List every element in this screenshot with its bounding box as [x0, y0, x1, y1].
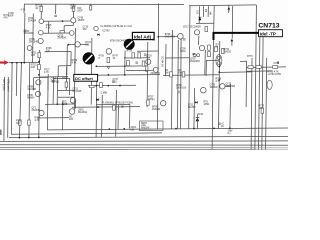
transistor Q701	[39, 19, 44, 24]
resistor R771	[222, 49, 225, 54]
wire vertical x208	[207, 6, 209, 17]
capacitor C771	[218, 122, 221, 124]
junction y85 a	[95, 85, 97, 87]
resistor R762	[182, 72, 185, 77]
wire vertical x91	[90, 38, 93, 105]
bus bottom line 3	[9, 136, 288, 137]
resistor R756	[127, 61, 130, 66]
uparrow node 2	[231, 39, 234, 42]
svg-text:Q719: Q719	[146, 56, 152, 58]
resistor R7z	[113, 105, 116, 110]
junction input 1	[11, 62, 13, 64]
transistor Q704	[36, 80, 41, 85]
wire corner into block	[240, 60, 247, 62]
junction bus1 e	[213, 127, 215, 129]
junction y66 a	[96, 65, 98, 67]
transistor Q708	[39, 110, 44, 115]
junction x219 b	[218, 71, 220, 73]
diode D707	[107, 67, 109, 69]
wire vertical x75	[74, 28, 75, 110]
capacitor C751	[135, 61, 138, 63]
svg-text:FL-DM(WL) SP BLUE FY-4.19: FL-DM(WL) SP BLUE FY-4.19	[101, 26, 133, 28]
wire y76 link	[40, 76, 68, 78]
resistor R785	[19, 120, 22, 125]
wire diode drop	[196, 115, 198, 129]
svg-text:2SC1PH: 2SC1PH	[151, 73, 160, 75]
page edge mark	[0, 130, 2, 136]
transistor Q719	[146, 59, 151, 64]
transistor Q717	[194, 30, 199, 35]
diode D709 black	[198, 17, 201, 20]
bus bottom line 4	[0, 140, 288, 143]
resistor R757	[147, 100, 150, 105]
bus bottom line 5	[0, 144, 288, 147]
wire vertical x158	[158, 3, 159, 129]
wire vertical x213 lower	[212, 43, 213, 151]
wire q727 link	[225, 85, 231, 87]
wire left vertical x33	[32, 14, 35, 63]
boxed part label MZ07	[140, 121, 164, 131]
wire x62 drop	[61, 101, 63, 130]
junction bus1 a	[108, 128, 110, 130]
transistor Q720	[69, 109, 75, 115]
wire y63 extension	[37, 61, 40, 63]
wire left net vertical B	[7, 77, 10, 138]
wire right mid y58	[165, 57, 189, 59]
capacitor C753	[177, 91, 179, 94]
junction y75 b	[124, 74, 126, 76]
label box DC offset	[74, 74, 98, 81]
transistor Q706	[35, 91, 40, 96]
wire R711 feed	[40, 4, 42, 18]
wire vertical x39	[38, 50, 41, 138]
junction bus1 f	[229, 127, 231, 129]
svg-text:BGT(L)/(R): BGT(L)/(R)	[2, 79, 4, 91]
junction x219 a	[219, 66, 221, 68]
label box Idel Adj	[132, 32, 154, 39]
wire center y75	[90, 74, 160, 77]
thick trace to Idel-TP	[214, 33, 259, 40]
junction q712	[67, 44, 69, 46]
capacitor C719	[56, 80, 59, 82]
transistor Q707	[70, 31, 75, 36]
wire x58 drop	[57, 66, 59, 77]
capacitor C703	[24, 29, 27, 31]
wire vertical x116	[115, 90, 118, 137]
wire trimmer drop	[124, 51, 126, 75]
wire q712 left	[68, 44, 75, 46]
wire loop top	[34, 76, 48, 78]
wire vertical x181	[180, 39, 183, 129]
schematic background	[0, 0, 288, 150]
wire link x48	[48, 22, 50, 33]
resistor R765h	[273, 66, 278, 69]
junction bus3 a	[18, 137, 20, 139]
wire y51 link	[45, 50, 71, 52]
wire x90 feed	[90, 4, 92, 10]
wire loop right	[47, 77, 49, 90]
resistor R753	[132, 53, 135, 58]
capacitor C747	[112, 80, 115, 82]
wire vertical x213 upper	[213, 6, 216, 32]
resistor R787	[28, 120, 31, 125]
trimmer VR701 black knob	[83, 52, 95, 64]
wire top right rail	[189, 4, 256, 7]
svg-text:R753: R753	[127, 51, 133, 53]
wire x71 corner	[70, 51, 72, 65]
page divider band	[0, 147, 288, 149]
wire left net vertical A	[3, 77, 6, 141]
svg-text:R737: R737	[62, 78, 68, 80]
wire vertical x130	[129, 105, 131, 129]
wire x206 link	[205, 60, 207, 76]
uparrow to idle tp	[212, 35, 215, 38]
transistor Q721	[199, 45, 204, 50]
wire vertical x57	[56, 77, 58, 104]
svg-text:R779: R779	[247, 56, 253, 58]
svg-text:C709100U: C709100U	[180, 49, 186, 53]
svg-text:D190: D190	[198, 114, 204, 116]
transistor Q711	[27, 46, 32, 51]
transistor Q723	[161, 101, 166, 106]
wire vertical x147	[146, 42, 149, 107]
svg-text:CN(L) panel: CN(L) panel	[6, 79, 8, 92]
wire vertical x96	[95, 80, 98, 137]
transistor Q725	[201, 87, 207, 93]
wire vertical x230	[229, 84, 232, 129]
wire right mid y75	[163, 74, 219, 77]
wire vertical x53	[52, 77, 55, 104]
wire vertical x203	[202, 6, 204, 17]
wire vertical x47	[46, 74, 49, 130]
wire vertical x246 block edge	[245, 61, 248, 107]
wire vertical x118	[117, 105, 120, 129]
wire mid y58	[126, 57, 150, 59]
wire right cluster y67	[246, 66, 286, 69]
resistor R761	[248, 66, 253, 69]
wire q710 q720 link	[74, 100, 76, 108]
wire right cluster y71	[246, 70, 272, 72]
wire vertical x194	[193, 88, 196, 129]
resistor R773	[261, 108, 264, 113]
svg-text:4.7K: 4.7K	[21, 10, 26, 12]
trimmer VR703 black knob	[124, 39, 135, 50]
transistor Q705	[39, 30, 44, 35]
wire vertical x165	[165, 44, 168, 76]
small circle pair a	[193, 54, 196, 57]
wire y117	[37, 117, 69, 119]
svg-text:U2790: U2790	[103, 31, 111, 33]
bus bottom line 1	[47, 128, 288, 130]
wire interstage y20	[44, 20, 71, 22]
resistor R714	[90, 6, 92, 10]
capacitor C749	[144, 53, 147, 55]
resistor R721	[38, 53, 41, 58]
resistor R711	[40, 6, 43, 11]
junction x158 q718	[157, 36, 159, 38]
wire center y85	[88, 84, 136, 87]
wire vertical x102	[101, 95, 104, 137]
uparrow top	[228, 7, 231, 10]
wire top rail corner	[23, 4, 25, 13]
resistor R723	[38, 65, 41, 70]
junction y21	[62, 20, 64, 22]
wire loop left	[32, 78, 34, 91]
diode D705	[97, 34, 99, 36]
resistor R749	[107, 58, 110, 63]
junction input 2	[16, 62, 18, 64]
resistor R763	[256, 66, 261, 69]
wire vertical x176	[177, 40, 180, 129]
transistor Q703	[71, 18, 76, 23]
transistor Q710	[70, 98, 76, 104]
small circle pair b	[197, 54, 200, 57]
resistor R716	[60, 31, 64, 33]
junction x219 c	[218, 79, 220, 81]
svg-text:4M: 4M	[204, 9, 206, 12]
svg-text:C717100U: C717100U	[51, 79, 57, 83]
resistor R7x	[90, 85, 95, 87]
junction bus1 d	[193, 128, 195, 130]
electrolytic C757	[216, 55, 222, 67]
box frame top	[53, 77, 69, 79]
wire q712 right	[80, 43, 88, 45]
bus vertical right 2	[259, 37, 260, 150]
wire right bus link y72	[219, 71, 252, 74]
capacitor C7n	[121, 105, 124, 107]
wire center y107	[72, 106, 140, 109]
transistor Q712	[75, 42, 80, 47]
junction x62	[62, 103, 64, 105]
junction R721	[38, 61, 40, 63]
wire vertical x66	[65, 67, 67, 90]
wire left mid y104	[45, 103, 75, 105]
transistor Q718	[178, 34, 184, 40]
wire vertical x29	[28, 63, 31, 138]
transistor Q709	[38, 38, 43, 43]
resistor R752	[208, 45, 211, 50]
diode D711	[195, 101, 197, 103]
junction bus1 b	[123, 128, 125, 130]
svg-text:Idel -TP: Idel -TP	[260, 31, 276, 36]
wire diode row y23	[196, 22, 214, 24]
transistor Q713	[94, 26, 98, 30]
capacitor C705	[54, 14, 57, 16]
bus vertical right 4	[266, 58, 267, 150]
red input arrow	[0, 62, 4, 64]
junction bus3 c	[38, 137, 40, 139]
wire y25 jog	[64, 25, 73, 27]
svg-text:B754 DXC440P: B754 DXC440P	[110, 40, 127, 42]
capacitor C755	[183, 38, 186, 40]
wire y70 mid	[126, 69, 153, 71]
wire left mid y90	[58, 89, 75, 91]
resistor R769	[215, 47, 218, 52]
wire mid y51	[137, 50, 158, 52]
transistor Q722	[153, 67, 158, 72]
junction R723	[38, 74, 40, 76]
resistor R758	[142, 61, 145, 66]
wire q717 link	[198, 36, 200, 46]
transistor Q727	[220, 84, 225, 89]
wire vertical x205	[204, 50, 207, 75]
wire vertical x199 to diode	[198, 6, 200, 23]
connector box Idel -TP	[259, 30, 283, 37]
svg-text:Q717 2SC2060R: Q717 2SC2060R	[183, 27, 201, 29]
wire q703 down	[72, 23, 74, 26]
diode D190 black	[196, 118, 200, 122]
svg-text:Idel Adj: Idel Adj	[134, 34, 151, 40]
svg-text:C1.: C1.	[152, 40, 156, 42]
resistor R7y	[100, 83, 103, 88]
resistor R760	[170, 72, 173, 77]
electrolytic C763	[267, 80, 272, 89]
junction mid x125	[124, 57, 126, 59]
bus vertical right 1	[255, 5, 257, 150]
capacitor C761	[277, 61, 279, 64]
resistor R755	[138, 53, 141, 58]
junction y85 c	[119, 85, 121, 87]
svg-text:DC offset: DC offset	[75, 76, 93, 81]
wire input node drop 2	[15, 63, 18, 96]
junction y104 x57	[56, 103, 58, 105]
wire interstage y33	[43, 32, 69, 34]
resistor R754	[208, 52, 211, 57]
resistor R737	[65, 82, 68, 87]
junction bus1 c	[175, 128, 177, 130]
wire top rail V+	[24, 3, 184, 6]
wire vertical x232	[231, 6, 234, 39]
box frame right	[69, 78, 71, 95]
bus vertical right 5	[250, 58, 253, 150]
wire input horizontal	[9, 61, 37, 63]
svg-text:DC/MA 04: DC/MA 04	[161, 56, 164, 67]
wire vertical x219	[219, 41, 220, 129]
svg-text:CN713: CN713	[258, 23, 279, 30]
wire vertical x228 stub	[228, 5, 230, 13]
transistor Q715 driver	[106, 49, 112, 55]
wire q718 left	[158, 36, 177, 38]
capacitor C7m	[97, 106, 100, 108]
wire vertical x189	[189, 5, 190, 129]
junction mid x125 b	[124, 65, 126, 67]
junction bus3 b	[28, 137, 30, 139]
diode D703 black	[96, 98, 99, 101]
junction input 3	[21, 62, 23, 64]
junction y75 a	[108, 74, 110, 76]
wire y60 right	[206, 59, 219, 61]
wire vertical x172	[172, 30, 173, 129]
wire x64 drop	[63, 26, 65, 33]
resistor R713	[72, 6, 75, 11]
wire R713 feed	[72, 4, 74, 17]
capacitor C717	[52, 80, 55, 82]
svg-text:C MIN: C MIN	[101, 93, 108, 95]
bus vertical right 3	[262, 37, 263, 150]
junction y85 b	[107, 85, 109, 87]
wire left mid y97	[58, 96, 75, 98]
svg-text:C761: C761	[274, 63, 280, 65]
wire center y66	[96, 65, 147, 68]
wire vertical x55 top	[55, 4, 57, 14]
capacitor C753u	[192, 53, 195, 55]
resistor R748	[145, 66, 148, 71]
wire y65 link	[58, 65, 71, 67]
junction input 4	[23, 62, 25, 64]
svg-text:FL-DM(WL) SP BLUE FY2(H): FL-DM(WL) SP BLUE FY2(H)	[102, 102, 133, 104]
wire left vertical x25	[23, 13, 26, 63]
wire vertical x67 mid	[66, 45, 69, 75]
wire input node drop 3	[20, 63, 22, 138]
wire input node drop 1	[10, 63, 13, 134]
bus bottom line 2	[11, 133, 162, 134]
wire center y104	[96, 103, 130, 105]
resistor R759	[205, 27, 208, 32]
